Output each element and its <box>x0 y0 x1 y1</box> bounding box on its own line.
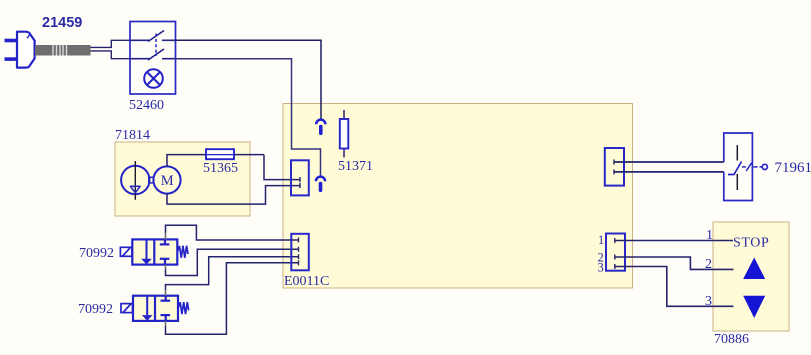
svg-text:M: M <box>161 173 174 189</box>
valve V1 blocked ports <box>160 239 170 264</box>
switch 71961 box <box>724 133 753 201</box>
valve V1 bottom port stub <box>165 265 167 271</box>
connector CN2 (socket-pin) <box>316 177 325 191</box>
svg-text:1: 1 <box>706 228 713 243</box>
switch-lamp box 52460 <box>130 22 176 95</box>
fuse 51371 <box>340 119 349 149</box>
svg-text:E0011C: E0011C <box>284 274 329 289</box>
motor M1 <box>153 166 180 193</box>
valve V1 top port stub <box>165 232 167 239</box>
pump flow triangle <box>130 186 140 193</box>
svg-text:52460: 52460 <box>129 98 164 113</box>
connector CN3 contacts <box>299 177 301 188</box>
pump shaft line <box>134 161 136 200</box>
wire fuse to connector CN3 <box>264 155 300 180</box>
fuse 51365 <box>206 149 264 159</box>
plug P1 prong top <box>5 39 18 43</box>
svg-text:71814: 71814 <box>115 128 150 143</box>
svg-text:70992: 70992 <box>78 302 113 317</box>
wire valve V1 bottom to pin2 <box>166 249 299 275</box>
svg-text:21459: 21459 <box>42 15 82 31</box>
plug P1 crease <box>27 35 29 39</box>
connector E0011C housing <box>291 234 309 270</box>
switch 71961 actuator circle <box>762 164 767 169</box>
box 71814 (pump/motor unit) <box>115 142 250 216</box>
valve V1 body <box>132 239 177 264</box>
valve V2 bottom port stub <box>165 321 167 327</box>
valve V2 spring <box>178 302 189 314</box>
connector CN4 housing (right edge) <box>605 148 624 186</box>
connector CN4 contacts <box>613 160 615 175</box>
cable stripe marks <box>53 45 67 56</box>
plug P1 body <box>17 32 35 68</box>
valve V2 body <box>133 296 178 321</box>
svg-text:1: 1 <box>598 233 604 247</box>
svg-text:3: 3 <box>705 294 712 309</box>
svg-text:70992: 70992 <box>79 246 114 261</box>
pump X1 <box>121 166 149 194</box>
connector CN5 housing (pendant) <box>606 234 625 271</box>
switch 71961 upper contact <box>736 145 738 161</box>
valve V2 solenoid <box>121 304 133 313</box>
valve V1 arrow <box>141 239 152 264</box>
switch pole 2 <box>130 49 176 60</box>
valve V2 blocked ports <box>161 296 171 321</box>
svg-text:51365: 51365 <box>203 161 238 176</box>
wire pair cable to switch <box>91 40 131 58</box>
valve V1 spring <box>178 246 189 258</box>
switch 71961 actuator dashes <box>742 166 762 168</box>
valve V2 top port stub <box>165 289 167 296</box>
fuse 51371 lead <box>343 110 345 158</box>
svg-text:71961: 71961 <box>775 160 811 176</box>
switch 71961 lower contact <box>736 174 738 190</box>
svg-text:2: 2 <box>705 257 712 272</box>
box 70886 pendant <box>713 222 789 331</box>
wire 1 CN5 to STOP <box>615 240 733 242</box>
wire switch top to connector CN1 <box>176 40 322 119</box>
connector CN3 housing <box>291 160 309 195</box>
connector E0011C contacts <box>298 238 300 266</box>
power cable <box>35 45 91 56</box>
connector CN1 (socket-pin) <box>316 120 325 134</box>
valve V2 divider <box>154 296 156 321</box>
switch 71961 actuator slash <box>746 163 751 171</box>
svg-text:STOP: STOP <box>733 236 769 251</box>
plug P1 prong bottom <box>5 57 18 61</box>
switch 71961 lever <box>728 162 742 175</box>
wire valve V2 bottom to pin4 <box>166 263 299 335</box>
up button triangle <box>743 258 765 280</box>
wire CN4 top to switch 71961 <box>614 161 724 163</box>
wire 3 CN5 to down button <box>615 267 734 307</box>
wire valve V2 top to pin3 <box>166 257 299 290</box>
lamp symbol <box>144 69 163 88</box>
wire motor bottom to connector CN3 <box>167 186 300 205</box>
svg-text:70886: 70886 <box>714 332 749 347</box>
svg-text:3: 3 <box>598 261 604 275</box>
valve V1 solenoid <box>120 247 131 256</box>
box E0011C main control unit <box>283 104 633 289</box>
connector CN5 contacts <box>614 238 616 269</box>
valve V1 divider <box>153 239 155 264</box>
wire 2 CN5 to up button <box>615 257 734 269</box>
svg-text:51371: 51371 <box>338 159 373 174</box>
wire motor top to fuse <box>167 155 206 167</box>
switch pole 1 <box>130 31 176 42</box>
wire valve V1 top to pin1 <box>166 225 299 240</box>
coupling <box>149 177 154 183</box>
switch link dashed <box>155 34 157 57</box>
wire CN4 bottom to switch 71961 <box>614 171 724 173</box>
wire switch bottom to connector CN2 <box>176 59 321 177</box>
valve V2 arrow <box>142 296 153 321</box>
down button triangle <box>743 296 765 318</box>
